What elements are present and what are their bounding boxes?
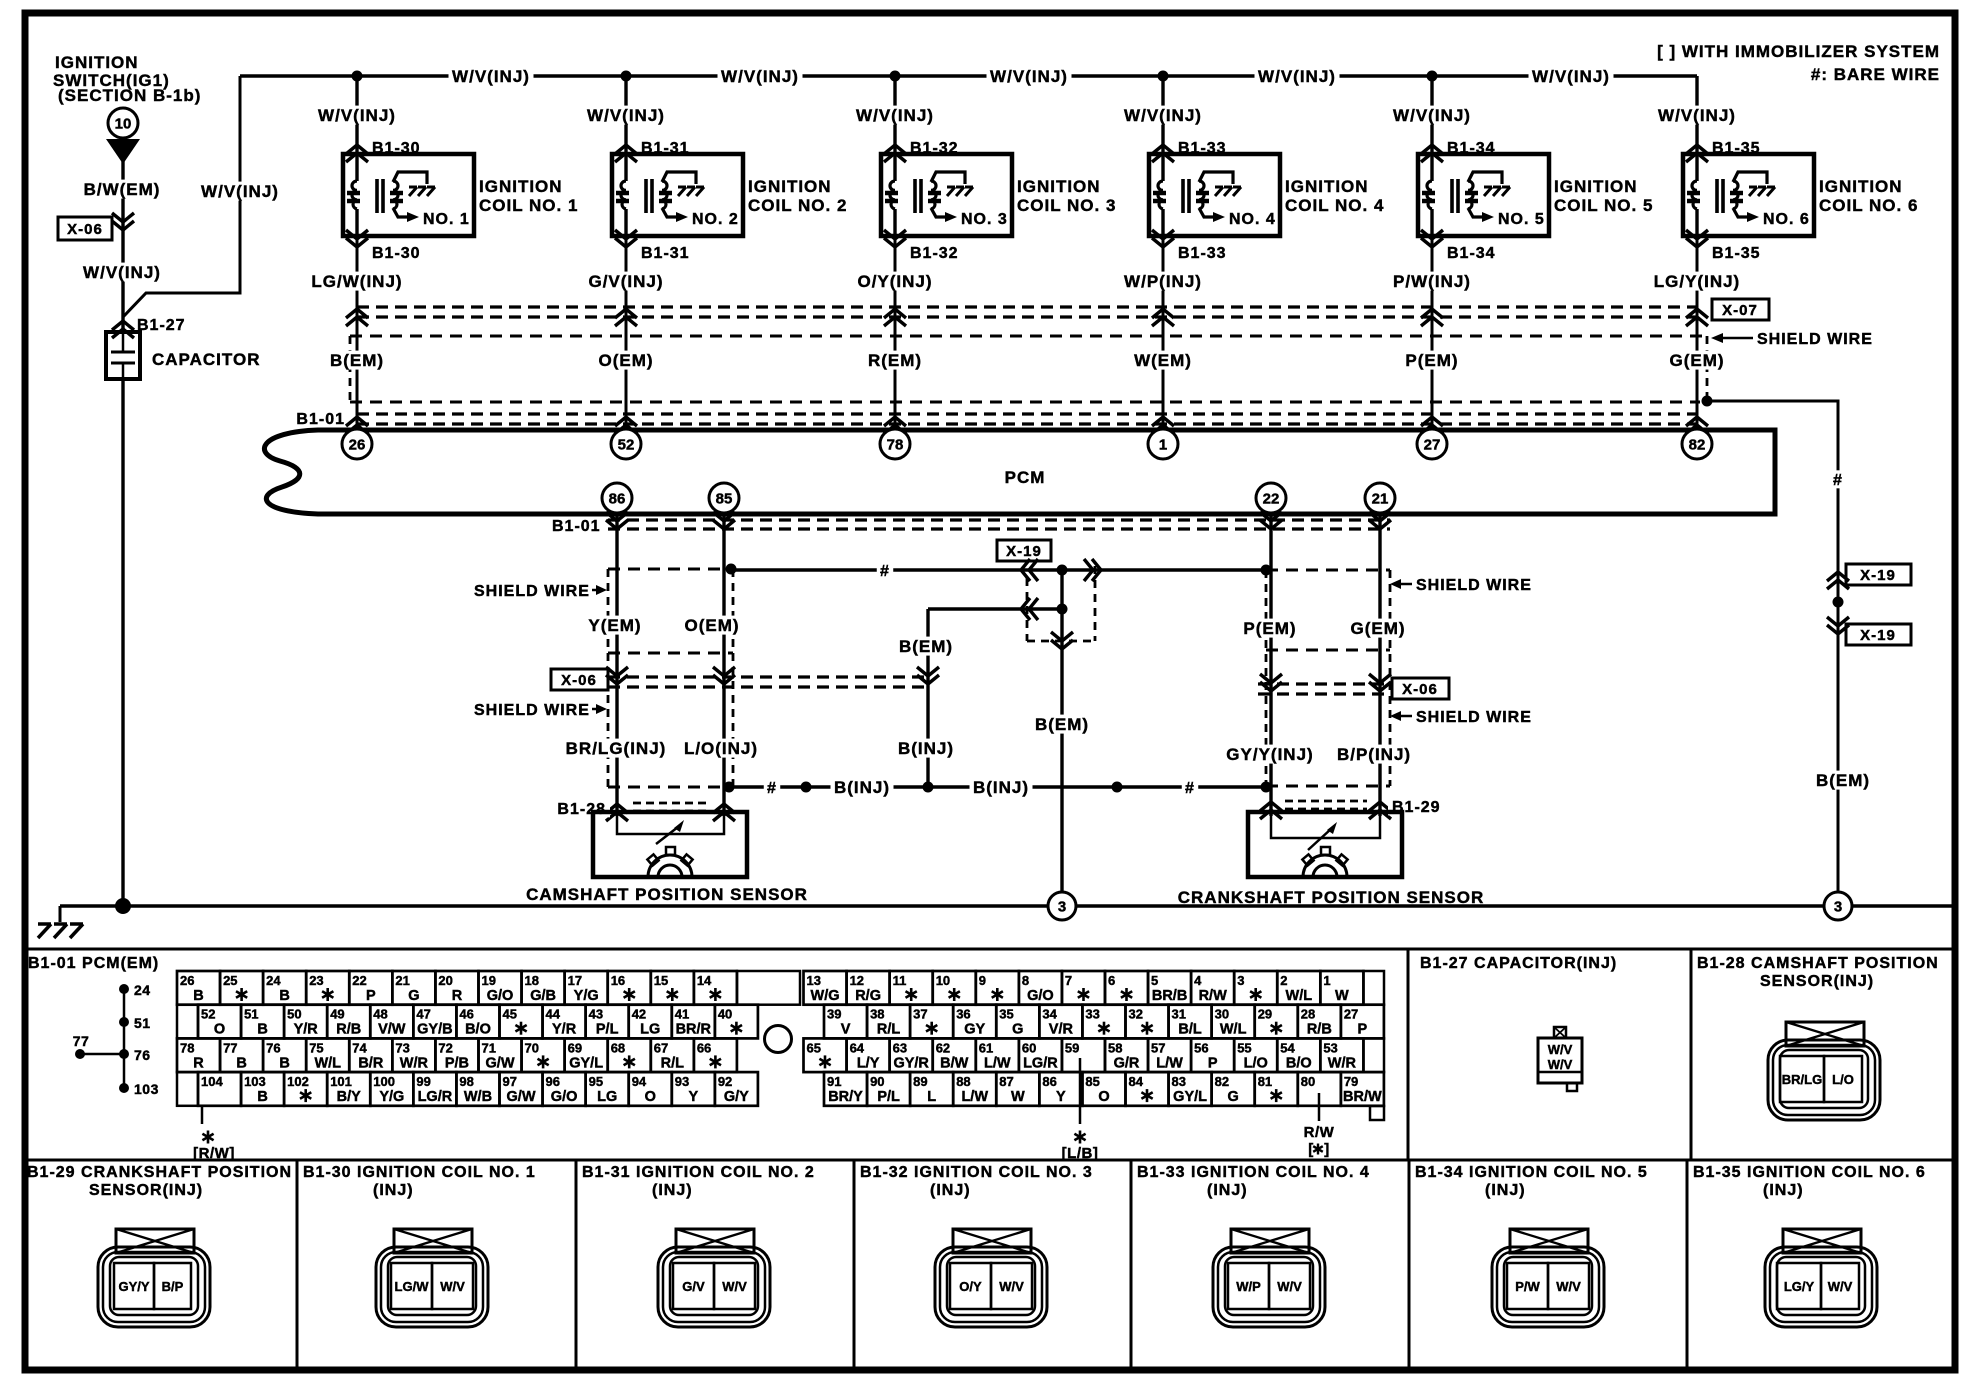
connector B1-01 chevron below PCM at x 1271 [1260,512,1282,529]
svg-text:74: 74 [352,1040,367,1055]
svg-text:69: 69 [568,1040,582,1055]
shield wire dashed box crankshaft top [1266,569,1390,572]
header B1-30 IGNITION COIL NO. 1 [303,1164,536,1199]
svg-text:43: 43 [589,1007,603,1022]
B1-34 connector icon [1492,1229,1604,1327]
svg-text:G: G [1228,1089,1239,1105]
svg-text:GY/R: GY/R [893,1055,929,1071]
svg-text:8: 8 [1022,973,1029,988]
svg-text:84: 84 [1128,1074,1143,1089]
capacitor C (B1-27) box [106,332,140,379]
ignition coil NO. 5 box [1418,154,1549,236]
svg-text:LG/Y: LG/Y [1784,1279,1815,1294]
svg-text:COIL NO. 3: COIL NO. 3 [1017,196,1116,215]
svg-text:88: 88 [956,1074,970,1089]
connector X-19 box right upper [1846,564,1911,585]
B1-01 pin 34 V/R [1039,1005,1082,1039]
svg-text:91: 91 [827,1074,841,1089]
wire B(INJ) splice line [729,785,1266,788]
connector chevron col 1 at shield bus [346,309,368,326]
table row divider [25,1159,1955,1162]
svg-text:NO. 4: NO. 4 [1229,211,1276,228]
B1-01 pin 82 G [1212,1072,1255,1106]
X-19 dashed shield U [1027,566,1095,641]
svg-text:35: 35 [999,1007,1013,1022]
wire W/V(INJ) column 4 from bus to coil [1161,76,1164,154]
label P(EM) [1240,619,1300,638]
svg-text:28: 28 [1301,1007,1315,1022]
svg-text:26: 26 [349,436,366,453]
B1-01 pin 4 R/W [1191,971,1234,1005]
label LG/Y(INJ) [1651,272,1743,291]
label # on shield drain 1 [877,561,893,580]
connector X-06 chevron on wire [112,213,134,230]
svg-text:59: 59 [1065,1040,1079,1055]
B1-01 pin 48 V/W [370,1005,413,1039]
arrow shield wire at X-07 [1711,331,1873,348]
svg-text:1: 1 [1323,973,1330,988]
PCM terminal 22 [1256,483,1286,513]
svg-text:NO. 1: NO. 1 [423,211,470,228]
header B1-29 CRANKSHAFT POSITION [27,1164,292,1199]
ground bus wire [60,904,1952,907]
svg-text:W/V(INJ): W/V(INJ) [1124,106,1202,125]
B1-31 connector icon [658,1229,770,1327]
B1-01 pin 65 * [804,1038,847,1072]
svg-text:R/W: R/W [1304,1124,1335,1141]
connector B1-01 chevron col 2 [615,417,637,434]
label # right wire [1830,470,1846,489]
shield wire dashed rectangle bottom [350,401,1700,404]
shield wire dashed box camshaft mid [608,652,733,655]
wire W/V(INJ) column 1 from bus to coil [355,76,358,154]
svg-text:COIL NO. 1: COIL NO. 1 [479,196,578,215]
B1-01 pin 80 [1298,1072,1341,1106]
wire G(EM)/B/P(INJ) PCM 21 to crankshaft sensor [1378,514,1381,816]
svg-text:O: O [645,1089,656,1105]
wire P(EM)/GY/Y(INJ) PCM 22 to crankshaft sensor [1269,514,1272,816]
svg-text:58: 58 [1108,1040,1122,1055]
svg-text:G(EM): G(EM) [1669,351,1724,370]
svg-text:L: L [927,1089,936,1105]
svg-text:LG/W(INJ): LG/W(INJ) [311,272,402,291]
connector X-19 chevron lower [1021,598,1038,620]
junction dot B(INJ) 2 [801,782,812,793]
B1-01 pin 95 LG [586,1072,629,1106]
connector B1-27 chevron [112,321,134,338]
B1-01 pin 38 R/L [867,1005,910,1039]
B1-01 pin 99 LG/R [413,1072,456,1106]
svg-text:26: 26 [180,973,194,988]
B1-01 pin 101 B/Y [327,1072,370,1106]
B1-01 pin 90 P/L [867,1072,910,1106]
svg-text:BR/B: BR/B [1152,988,1187,1004]
label B1-28 [552,799,610,818]
label G(EM) [1666,351,1728,370]
B1-01 pin 60 LG/R [1019,1038,1062,1072]
B1-01 pin 17 Y/G [565,971,608,1005]
svg-text:40: 40 [718,1007,732,1022]
B1-01 pin 88 L/W [953,1072,996,1106]
B1-01 pin 78 R [177,1038,220,1072]
B1-01 pin 59 [1062,1038,1105,1072]
svg-text:B/P: B/P [162,1279,184,1294]
svg-text:B1-28: B1-28 [557,801,606,818]
svg-text:COIL NO. 5: COIL NO. 5 [1554,196,1653,215]
B1-01 pin 8 G/O [1019,971,1062,1005]
B1-01 pin 93 Y [672,1072,715,1106]
svg-text:NO. 3: NO. 3 [961,211,1008,228]
svg-text:87: 87 [999,1074,1013,1089]
svg-text:L/W: L/W [1156,1055,1183,1071]
table top border [25,948,1955,951]
B1-01 pin 69 GY/L [565,1038,608,1072]
svg-text:46: 46 [459,1007,473,1022]
svg-text:47: 47 [416,1007,430,1022]
svg-text:X-19: X-19 [1860,627,1896,644]
svg-text:W/V(INJ): W/V(INJ) [83,263,161,282]
svg-text:W/V: W/V [1548,1042,1573,1057]
svg-text:Y/R: Y/R [552,1022,577,1038]
wire O(EM)/L/O(INJ) PCM 85 to camshaft sensor [722,514,725,816]
svg-text:L/O: L/O [1832,1072,1854,1087]
svg-text:100: 100 [373,1074,395,1089]
svg-text:44: 44 [546,1007,561,1022]
svg-text:#: # [767,780,777,797]
svg-text:LG/R: LG/R [1023,1055,1058,1071]
PCM terminal 86 [602,483,632,513]
B1-01 pin 98 W/B [456,1072,499,1106]
svg-text:10: 10 [936,973,950,988]
junction top bus col 1 [352,71,363,82]
svg-text:42: 42 [632,1007,646,1022]
B1-01 pin 63 GY/R [890,1038,933,1072]
svg-text:B1-29 CRANKSHAFT POSITION: B1-29 CRANKSHAFT POSITION [27,1164,292,1181]
svg-text:G(EM): G(EM) [1350,619,1405,638]
svg-text:W/L: W/L [1220,1022,1247,1038]
label IGNITION COIL NO. 2 [748,177,847,215]
ignition coil NO. 3 box [881,154,1012,236]
B1-01 pin 58 G/R [1105,1038,1148,1072]
svg-text:82: 82 [1689,436,1706,453]
svg-text:57: 57 [1151,1040,1165,1055]
label B(INJ) left branch [895,739,958,758]
svg-text:78: 78 [180,1040,194,1055]
B1-01 pin 40 * [715,1005,758,1039]
svg-text:GY/B: GY/B [417,1022,452,1038]
label B1-35 below coil [1712,245,1761,262]
B1-01 grid filler cell [1364,1038,1385,1072]
svg-text:85: 85 [716,490,733,507]
svg-text:P/L: P/L [877,1089,900,1105]
B1-01 pin 23 * [306,971,349,1005]
ignition coil NO. 2 box [612,154,743,236]
B1-01 pin 1 W [1320,971,1363,1005]
connector chevron col 2 at shield bus [615,309,637,326]
svg-text:16: 16 [611,973,625,988]
svg-text:L/Y: L/Y [857,1055,880,1071]
svg-text:4: 4 [1194,973,1202,988]
label IGNITION COIL NO. 4 [1285,177,1384,215]
B1-01 pin 41 BR/R [672,1005,715,1039]
svg-text:25: 25 [223,973,237,988]
svg-text:B1-35: B1-35 [1712,245,1761,262]
svg-text:W: W [1011,1089,1025,1105]
svg-text:[R/W]: [R/W] [193,1145,235,1162]
B1-01 pin 20 R [435,971,478,1005]
label # on B(INJ) line 1 [764,778,780,797]
wire W/V(INJ) column 5 from bus to coil [1430,76,1433,154]
header B1-35 IGNITION COIL NO. 6 [1693,1164,1926,1199]
label # on B(INJ) line 2 [1182,778,1198,797]
label B(EM) left branch [896,637,957,656]
bare wire from camshaft shield to X-19 [733,568,1262,571]
svg-text:W/V: W/V [1556,1279,1581,1294]
B1-01 pin 104 [198,1072,241,1106]
svg-text:#: BARE WIRE: #: BARE WIRE [1811,65,1940,84]
connector B1-33 chevron below coil [1152,230,1174,247]
ignition coil NO. 5 internals [1422,154,1545,236]
svg-text:R/G: R/G [855,988,881,1004]
label IGNITION COIL NO. 1 [479,177,578,215]
junction dot at crankshaft shield top [1261,565,1272,576]
svg-text:Y/G: Y/G [574,988,599,1004]
label W/V(INJ) branch [198,182,283,201]
B1-01 pin 50 Y/R [284,1005,327,1039]
label W/V(INJ) on top bus 2 [718,67,803,86]
svg-text:50: 50 [287,1007,301,1022]
wire W/V(INJ) top bus [240,74,1697,77]
B1-27 capacitor connector icon [1538,1027,1582,1091]
svg-text:X-06: X-06 [1402,681,1438,698]
svg-text:101: 101 [330,1074,352,1089]
svg-text:B1-31 IGNITION COIL NO. 2: B1-31 IGNITION COIL NO. 2 [582,1164,815,1181]
B1-01 pin 7 * [1062,971,1105,1005]
svg-text:#: # [1833,472,1843,489]
svg-text:B1-35 IGNITION COIL NO. 6: B1-35 IGNITION COIL NO. 6 [1693,1164,1926,1181]
svg-text:Y(EM): Y(EM) [588,616,641,635]
svg-text:85: 85 [1085,1074,1099,1089]
B1-01 pin 70 * [522,1038,565,1072]
svg-text:B/W: B/W [940,1055,969,1071]
svg-text:B1-01 PCM(EM): B1-01 PCM(EM) [28,955,159,972]
label SHIELD WIRE right 1 [1390,577,1532,594]
label O/Y(INJ) [854,272,936,291]
svg-text:LG/Y(INJ): LG/Y(INJ) [1654,272,1740,291]
svg-text:SENSOR(INJ): SENSOR(INJ) [89,1182,203,1199]
svg-text:BR/LG: BR/LG [1782,1072,1822,1087]
B1-30 connector icon [376,1229,488,1327]
svg-text:64: 64 [850,1040,865,1055]
B1-01 pin 24 B [263,971,306,1005]
B1-01 pin 103 B [241,1072,284,1106]
svg-text:COIL NO. 6: COIL NO. 6 [1819,196,1918,215]
svg-text:W/L: W/L [314,1055,341,1071]
crankshaft position sensor internals [1271,812,1380,877]
svg-text:B: B [257,1089,267,1105]
label W/V(INJ) on top bus 4 [1255,67,1340,86]
label B1-27 [137,317,186,334]
junction dot X-19 top [1057,565,1068,576]
B1-01 pin 6 * [1105,971,1148,1005]
connector X-06 chevron wire 86 [606,667,628,684]
svg-text:IGNITION: IGNITION [1554,177,1638,196]
svg-text:93: 93 [675,1074,689,1089]
svg-text:B1-01: B1-01 [296,411,345,428]
svg-text:63: 63 [893,1040,907,1055]
svg-text:V: V [841,1022,851,1038]
svg-text:83: 83 [1172,1074,1186,1089]
PCM terminal 1 [1148,429,1178,459]
svg-text:W/R: W/R [400,1055,429,1071]
svg-text:B/W(EM): B/W(EM) [84,180,161,199]
svg-text:W/V: W/V [999,1279,1024,1294]
shield wire dashed rectangle right edge [1706,336,1709,398]
svg-text:B/Y: B/Y [337,1089,362,1105]
label CAPACITOR [152,350,261,369]
connector B1-30 chevron above coil [346,145,368,162]
B1-01 pin 76 B [263,1038,306,1072]
label B1-31 above coil [641,140,690,157]
label CRANKSHAFT POSITION SENSOR [1178,888,1485,907]
wire B(EM)/B(INJ) left branch down [926,609,929,787]
wire W/V(INJ) column 3 from bus to coil [893,76,896,154]
B1-01 pin 35 G [996,1005,1039,1039]
B1-01 pin 102 * [284,1072,327,1106]
svg-text:G/R: G/R [1114,1055,1140,1071]
wire B/W(EM) from ignition switch down [121,160,124,332]
svg-text:R/B: R/B [336,1022,361,1038]
connector X-19 chevron right wire lower [1827,617,1849,634]
svg-text:W/V(INJ): W/V(INJ) [1258,67,1336,86]
B1-01 pin 77 B [220,1038,263,1072]
svg-text:45: 45 [502,1007,516,1022]
svg-text:86: 86 [1042,1074,1056,1089]
svg-text:27: 27 [1344,1007,1358,1022]
svg-text:B1-31: B1-31 [641,245,690,262]
svg-text:#: # [880,563,890,580]
connector B1-35 chevron above coil [1686,145,1708,162]
svg-text:GY/Y: GY/Y [118,1279,149,1294]
junction dot capacitor wire at ground bus [115,898,131,914]
label B1-01 left of PCM [291,409,349,428]
connector X-06 box right [1392,678,1449,699]
svg-text:W/L: W/L [1286,988,1313,1004]
svg-text:20: 20 [438,973,452,988]
svg-text:104: 104 [201,1074,223,1089]
svg-text:51: 51 [244,1007,258,1022]
B1-01 pin 21 G [392,971,435,1005]
B1-01 pin 54 B/O [1277,1038,1320,1072]
svg-text:BR/LG(INJ): BR/LG(INJ) [566,739,667,758]
junction dot B(INJ) at camshaft shield [724,782,735,793]
label B1-34 below coil [1447,245,1496,262]
svg-text:56: 56 [1194,1040,1208,1055]
svg-text:W/V(INJ): W/V(INJ) [990,67,1068,86]
legend bare wire note [1811,65,1940,84]
svg-text:62: 62 [936,1040,950,1055]
svg-text:B1-32: B1-32 [910,245,959,262]
B1-01 pin 44 Y/R [543,1005,586,1039]
connector B1-28 chevrons and label [606,803,735,821]
svg-text:R/L: R/L [877,1022,901,1038]
label B1-32 above coil [910,140,959,157]
label W/P(INJ) [1121,272,1206,291]
label B1-34 above coil [1447,140,1496,157]
label B1-01 below PCM [552,518,601,535]
label B(EM) center [1032,715,1093,734]
svg-text:76: 76 [134,1047,151,1063]
svg-text:B1-33: B1-33 [1178,245,1227,262]
connector B1-01 chevron col 1 [346,417,368,434]
svg-text:V/R: V/R [1049,1022,1074,1038]
connector B1-33 chevron above coil [1152,145,1174,162]
B1-35 connector icon [1765,1229,1877,1327]
bare wire # from shield rect to right edge [1707,401,1838,906]
label W/V(INJ) left [80,263,165,282]
svg-text:O/Y: O/Y [959,1279,982,1294]
svg-text:3: 3 [1834,898,1842,915]
label B1-32 below coil [910,245,959,262]
svg-text:(SECTION B-1b): (SECTION B-1b) [58,86,201,105]
B1-01 pin 87 W [996,1072,1039,1106]
B1-01 pin 18 G/B [522,971,565,1005]
junction top bus col 5 [1427,71,1438,82]
B1-01 pin 42 LG [629,1005,672,1039]
svg-text:GY/L: GY/L [569,1055,603,1071]
svg-text:P/W: P/W [1515,1279,1540,1294]
svg-text:7: 7 [1065,973,1072,988]
svg-text:IGNITION: IGNITION [1285,177,1369,196]
B1-01 pin 5 BR/B [1148,971,1191,1005]
svg-text:B/O: B/O [1286,1055,1312,1071]
svg-text:IGNITION: IGNITION [1017,177,1101,196]
svg-text:W(EM): W(EM) [1134,351,1192,370]
svg-text:W/V: W/V [440,1279,465,1294]
svg-text:G: G [1012,1022,1023,1038]
svg-text:51: 51 [134,1015,151,1031]
svg-text:W/V(INJ): W/V(INJ) [1393,106,1471,125]
svg-text:X-06: X-06 [561,672,597,689]
B1-01 pin 26 B [177,971,220,1005]
svg-text:B1-30 IGNITION COIL NO. 1: B1-30 IGNITION COIL NO. 1 [303,1164,536,1181]
label Y(EM) [585,616,645,635]
svg-text:X-07: X-07 [1722,302,1758,319]
label W/V(INJ) on top bus 5 [1529,67,1614,86]
svg-text:R/B: R/B [1307,1022,1332,1038]
svg-text:99: 99 [416,1074,430,1089]
svg-text:B: B [257,1022,267,1038]
connector X-19 chevron left [1021,559,1038,581]
B1-01 pin 97 G/W [499,1072,542,1106]
terminal 10 circle [108,108,138,138]
svg-text:G/O: G/O [487,988,514,1004]
connector B1-01 chevron below PCM at x 1380 [1369,512,1391,529]
svg-text:COIL NO. 4: COIL NO. 4 [1285,196,1384,215]
junction top bus col 2 [621,71,632,82]
svg-text:G: G [408,988,419,1004]
svg-text:IGNITION: IGNITION [479,177,563,196]
svg-text:98: 98 [459,1074,473,1089]
B1-01 pin 49 R/B [327,1005,370,1039]
shield wire dashed box camshaft top [608,568,733,571]
svg-text:29: 29 [1258,1007,1272,1022]
label B(INJ) 1 [831,778,894,797]
connector chevron col 5 at shield bus [1421,309,1443,326]
label P(EM) [1402,351,1462,370]
ignition coil NO. 4 box [1149,154,1280,236]
svg-text:60: 60 [1022,1040,1036,1055]
